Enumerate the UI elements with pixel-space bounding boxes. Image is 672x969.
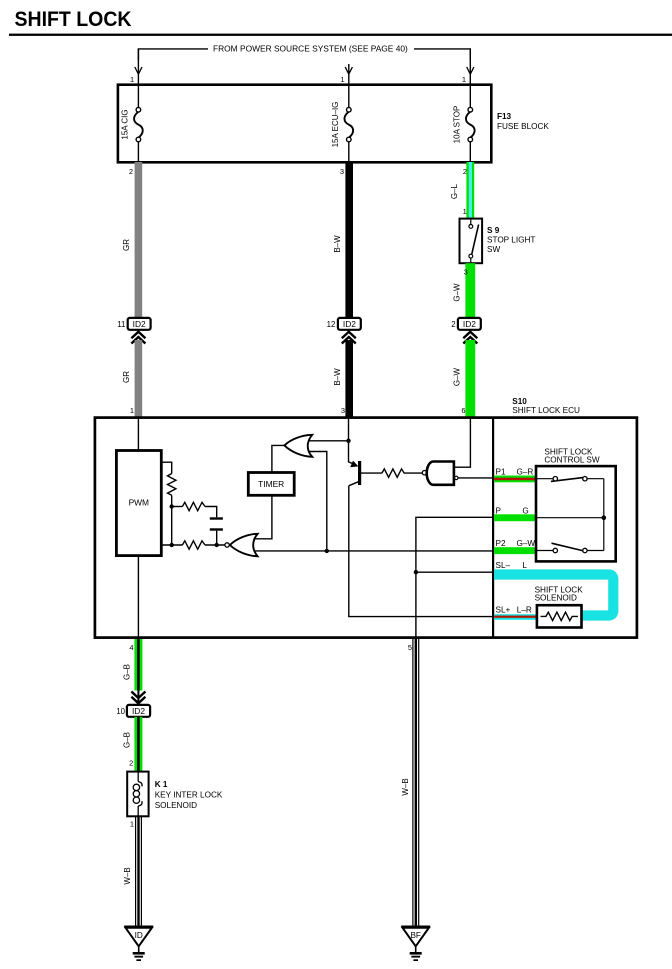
wire B-W fuse to ID2 [345, 162, 353, 318]
connector ID2 12 [327, 318, 361, 344]
wire B-W ID2 to ECU [345, 340, 353, 418]
banner line left [138, 49, 208, 60]
wire W-B right [413, 639, 419, 926]
svg-text:10A STOP: 10A STOP [453, 106, 462, 144]
svg-text:GR: GR [122, 371, 131, 383]
wire resistor to junction [171, 495, 173, 506]
wire G-W ID2 to ECU [465, 340, 475, 418]
svg-text:SOLENOID: SOLENOID [535, 594, 577, 603]
ECU box [95, 418, 637, 638]
svg-text:12: 12 [327, 320, 336, 329]
feed wire 3 [462, 49, 474, 86]
ECU S10 label [512, 397, 580, 415]
svg-text:2: 2 [129, 759, 133, 768]
wire emitter down and SL+ row [349, 486, 493, 617]
wire P row to vertical [416, 517, 493, 637]
svg-text:3: 3 [341, 406, 345, 415]
node junction pin3 [346, 439, 350, 443]
svg-text:2: 2 [129, 167, 133, 176]
svg-text:G–L: G–L [450, 183, 459, 199]
NAND lower input bubble [455, 476, 458, 479]
svg-text:SHIFT LOCK ECU: SHIFT LOCK ECU [512, 406, 580, 415]
switch P1 contacts [536, 477, 604, 482]
svg-text:ID2: ID2 [463, 319, 476, 329]
wire pin3 vertical [348, 418, 350, 462]
wire L solenoid loop [494, 575, 613, 616]
wire GR ID2 to ECU [135, 340, 143, 418]
wire OR2 upper input [308, 440, 349, 442]
connector ID2 10 [116, 705, 150, 717]
svg-text:15A ECU–IG: 15A ECU–IG [331, 102, 340, 148]
svg-text:B–W: B–W [333, 235, 342, 253]
wire P2 G-W [494, 547, 536, 554]
ground ID [124, 927, 153, 961]
wire SL- row [416, 571, 493, 573]
svg-text:G–R: G–R [517, 468, 534, 477]
wire pin1 to PWM [137, 418, 139, 451]
svg-text:L–R: L–R [517, 606, 532, 615]
resistor R horizontal 1 [172, 502, 217, 517]
node capacitor bottom [215, 543, 219, 547]
wire G-W S9 to ID2 [465, 263, 475, 318]
svg-text:CONTROL SW: CONTROL SW [544, 456, 599, 465]
gate OR2 (faces left) [284, 435, 312, 457]
svg-text:G–W: G–W [517, 539, 536, 548]
wire G-L fuse to S9 [466, 162, 474, 219]
svg-text:S10: S10 [512, 397, 527, 406]
feed wire 2 [340, 64, 352, 86]
relay K1 box [127, 772, 148, 817]
control SW box [536, 466, 616, 561]
ground BF [401, 927, 430, 961]
wire NAND lower input to P1 row [458, 477, 493, 479]
wire junction vertical [171, 507, 173, 546]
PWM box [116, 451, 161, 556]
fuse block F13 box [118, 85, 491, 163]
S9 labels [487, 226, 535, 254]
svg-text:G–B: G–B [123, 732, 132, 748]
svg-text:G–W: G–W [453, 283, 462, 302]
svg-text:L: L [522, 561, 527, 570]
node bus junction [602, 515, 607, 520]
K1 labels [155, 780, 223, 810]
svg-text:2: 2 [451, 320, 455, 329]
svg-text:1: 1 [130, 406, 134, 415]
fuse 10A STOP [453, 86, 475, 162]
svg-text:G–B: G–B [123, 664, 132, 680]
svg-text:FROM POWER SOURCE SYSTEM (SEE: FROM POWER SOURCE SYSTEM (SEE PAGE 40) [213, 44, 408, 54]
connector ID2 2 [451, 318, 481, 344]
node junction upper [170, 504, 174, 508]
wire PWM right top [161, 462, 171, 473]
svg-text:ID2: ID2 [132, 706, 145, 716]
fuse 15A ECU-IG [331, 86, 353, 162]
svg-text:10: 10 [116, 707, 125, 716]
capacitor C [210, 517, 223, 545]
fuse 15A CIG [121, 86, 143, 162]
svg-text:S 9: S 9 [487, 226, 500, 235]
svg-text:P: P [496, 506, 502, 515]
resistor base [382, 469, 422, 477]
svg-text:SL–: SL– [496, 561, 511, 570]
banner line right [414, 49, 470, 60]
svg-text:P2: P2 [496, 539, 506, 548]
resistor R vertical [168, 474, 176, 496]
title rule [9, 34, 672, 36]
svg-text:B–W: B–W [333, 368, 342, 386]
svg-text:1: 1 [130, 75, 134, 84]
wire NOR1 lower input to P2 row [255, 550, 493, 552]
node junction SL- [414, 570, 418, 574]
svg-text:1: 1 [130, 820, 134, 829]
svg-text:W–B: W–B [123, 867, 132, 884]
wire G-B center line through connector [137, 690, 139, 772]
wire GR fuse to ID2 [135, 162, 143, 318]
control SW labels [544, 447, 599, 464]
wire G-B lower [134, 717, 142, 772]
wire W-B left [136, 816, 142, 925]
svg-text:SHIFT LOCK: SHIFT LOCK [15, 8, 132, 31]
connector ID2 10 chevron [131, 692, 145, 704]
svg-text:SOLENOID: SOLENOID [155, 801, 197, 810]
solenoid labels [535, 585, 584, 602]
svg-text:ID2: ID2 [133, 319, 146, 329]
fuse block label [497, 112, 549, 131]
gate NOR1 bubble [225, 543, 229, 547]
resistor R horizontal 2 [161, 541, 225, 549]
svg-text:4: 4 [129, 643, 133, 652]
svg-text:15A CIG: 15A CIG [121, 109, 130, 139]
svg-text:1: 1 [340, 75, 344, 84]
svg-text:ID2: ID2 [343, 319, 356, 329]
svg-text:KEY INTER LOCK: KEY INTER LOCK [155, 790, 223, 799]
gate NAND U1 (faces left) [427, 462, 454, 485]
solenoid SHIFT LOCK SOLENOID [537, 605, 582, 627]
wire PWM bottom to pin 4 [137, 556, 139, 638]
svg-text:6: 6 [461, 406, 465, 415]
wire TIMER to NOR1 upper input [254, 495, 272, 539]
svg-text:PWM: PWM [129, 498, 149, 508]
svg-text:3: 3 [464, 267, 468, 276]
wire P1 G-R [494, 476, 536, 483]
svg-text:K 1: K 1 [155, 780, 168, 789]
TIMER box [248, 473, 294, 496]
wire P G [494, 514, 536, 521]
svg-text:P1: P1 [496, 468, 506, 477]
connector ID2 11 [117, 318, 150, 344]
svg-text:SW: SW [487, 245, 500, 254]
feed wire 1 [130, 49, 142, 86]
wire L-R [494, 614, 537, 620]
ECU divider [492, 418, 494, 638]
svg-text:5: 5 [408, 643, 412, 652]
switch S9 [460, 219, 483, 264]
switch bus vertical [603, 479, 605, 551]
svg-text:W–B: W–B [401, 778, 410, 795]
svg-text:1: 1 [462, 75, 466, 84]
svg-text:STOP LIGHT: STOP LIGHT [487, 236, 535, 245]
svg-text:TIMER: TIMER [258, 479, 284, 489]
gate NAND U1 bubble [422, 471, 426, 475]
wire OR2 output to TIMER [272, 445, 285, 472]
node junction lower [170, 543, 174, 547]
transistor Q1 [349, 461, 382, 486]
svg-text:G: G [522, 506, 528, 515]
svg-text:BF: BF [410, 931, 420, 940]
node junction OR2 feed [325, 549, 329, 553]
svg-text:F13: F13 [497, 112, 512, 121]
svg-text:2: 2 [463, 167, 467, 176]
svg-text:GR: GR [122, 239, 131, 251]
wire G-B upper [134, 639, 142, 691]
svg-text:ID: ID [135, 931, 143, 940]
wire junction up to OR2 [309, 452, 327, 551]
wire P row inside [536, 517, 604, 519]
gate NOR1 (faces left) [230, 534, 258, 557]
svg-text:11: 11 [117, 320, 125, 329]
wire pin6 vertical to NAND upper input [454, 418, 471, 467]
switch P2 contacts [536, 543, 604, 553]
svg-text:3: 3 [340, 167, 344, 176]
svg-text:G–W: G–W [453, 367, 462, 386]
svg-text:FUSE BLOCK: FUSE BLOCK [497, 122, 549, 131]
svg-text:1: 1 [463, 207, 467, 216]
svg-text:SL+: SL+ [496, 606, 511, 615]
